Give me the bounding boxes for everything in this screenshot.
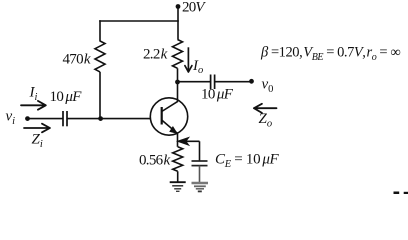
node collector dot: [175, 80, 180, 85]
capacitor CE: [192, 161, 208, 166]
page artifact marks bottom right: [394, 192, 408, 195]
wire output left: [178, 81, 211, 83]
transistor Q1 collector diagonal: [162, 101, 178, 111]
transistor Q1 emitter arrowhead: [169, 126, 178, 134]
wire emitter lead: [177, 134, 179, 147]
arrow into emitter node (CE branch): [179, 138, 200, 144]
resistor 470k: [95, 41, 105, 72]
ground below 0.56k: [170, 182, 186, 191]
wire 2.2k bottom lead: [177, 68, 179, 82]
arrow Ii: [21, 101, 46, 110]
wire input left: [28, 118, 64, 120]
transistor Q1 base bar: [161, 107, 163, 125]
svg-text:0.56k: 0.56k: [139, 153, 170, 169]
svg-text:10μF: 10μF: [50, 89, 83, 105]
wire 470k bottom lead: [99, 72, 101, 119]
svg-text:10μF: 10μF: [201, 87, 234, 103]
resistor 0.56k: [173, 147, 183, 172]
wire collector stub: [177, 82, 179, 102]
node VCC 20V dot: [176, 4, 181, 9]
wire 470k top lead: [99, 20, 101, 41]
capacitor 10uF input: [63, 111, 67, 126]
wire top rail: [99, 20, 179, 22]
arrow Zi: [24, 124, 50, 133]
svg-text:CE = 10μF: CE = 10μF: [215, 152, 280, 171]
wire CE top lead: [199, 141, 201, 161]
node vi input dot: [25, 116, 30, 121]
arrow Zo: [254, 104, 277, 113]
transistor Q1 circle: [150, 98, 187, 135]
svg-text:470k: 470k: [63, 52, 91, 68]
svg-text:2.2k: 2.2k: [143, 47, 168, 63]
wire CE bottom lead: [199, 166, 201, 183]
capacitor 10uF output: [211, 75, 215, 90]
transistor Q1 emitter diagonal: [162, 120, 178, 134]
wire output right: [215, 81, 252, 83]
svg-text:20V: 20V: [182, 0, 206, 16]
node v0 terminal dot: [249, 79, 254, 84]
svg-text:β =120,VBE = 0.7V,ro = ∞: β =120,VBE = 0.7V,ro = ∞: [260, 45, 400, 64]
wire VCC stem: [177, 7, 179, 40]
ground below CE: [192, 183, 209, 191]
wire 0.56k bottom lead: [177, 171, 179, 182]
node base junction dot: [98, 116, 103, 121]
resistor 2.2k: [173, 40, 183, 69]
wire input right to base: [67, 118, 151, 120]
arrow Io: [185, 47, 192, 72]
